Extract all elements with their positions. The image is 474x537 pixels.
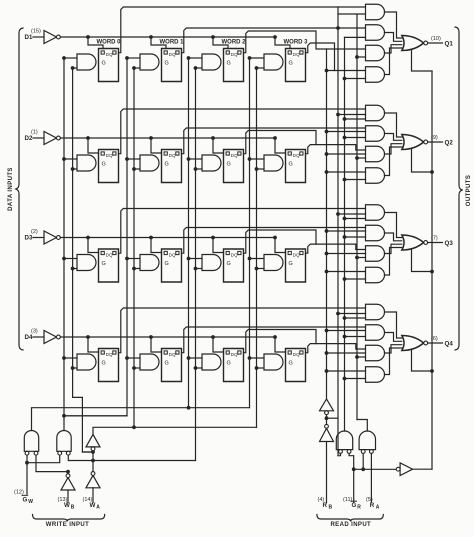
wire read tap row4 gate1 lower [343,316,366,320]
svg-text:G: G [102,61,106,67]
svg-text:D3: D3 [25,235,33,242]
svg-text:(15): (15) [31,29,41,35]
svg-text:D2: D2 [25,135,33,142]
svg-text:G: G [227,361,231,367]
AND gate out row4 g1 [366,304,385,320]
wire Q word2 row1 bus [244,31,366,53]
svg-text:Q: Q [296,52,300,57]
svg-text:Q: Q [234,52,238,57]
wire write tap A row4 word0 [62,356,77,360]
wire D row2 word1 to latch D [151,138,162,153]
wire Q word0 row4 bus [119,308,366,353]
wire D1 input stub [33,36,44,38]
wire write tap B row4 word1 [132,366,140,370]
wire read tap row1 gate2 lower [345,36,366,38]
wire write tap A row2 word0 [62,157,77,161]
pin label (5) [366,497,373,503]
AND gate cell row4 word1 [140,354,159,370]
wire read tap row4 gate2 mid [325,329,366,333]
wire enable stub Q1 [412,50,433,71]
label D2 [25,135,33,142]
wire g4 to NOR row2 [385,147,402,176]
wire Q word2 row4 bus [244,330,317,353]
svg-text:Q: Q [172,252,176,257]
wire write tap A row2 word3 [248,157,264,161]
wire write tap B row1 word1 [132,66,140,70]
wire read tap row3 gate2 mid [325,229,366,233]
pin label (4) [318,497,325,503]
svg-text:Q: Q [172,52,176,57]
wire D row3 word3 to latch D [275,238,286,253]
wire R2 output [357,420,367,432]
svg-text:Q: Q [296,153,300,158]
NOR gate Q4 [402,336,428,351]
wire R2 left input [361,453,365,471]
wire Q3 output [428,242,443,244]
wire write tap B row1 word0 [71,66,77,70]
junction D1 word2 [211,35,215,39]
wire write tap A row3 word0 [62,257,77,261]
inverter buffer D3 [44,231,60,244]
wire D2 input stub [33,137,44,139]
label GW [22,495,33,505]
wire read tap row2 gate1 lower [343,117,366,121]
label WORD 2 [222,40,247,46]
wire WA chain [82,447,95,472]
wire Q word0 row2 bus [119,109,366,154]
wire g3 to NOR row2 [385,144,402,154]
wire D4 data line [60,336,275,338]
svg-text:G: G [165,162,169,168]
wire D row4 word1 to latch D [151,337,162,352]
wire write tap A row4 word3 [248,356,264,360]
junction D3 word3 [273,236,277,240]
svg-text:G: G [165,61,169,67]
wire read tap row2 gate4 upper [325,170,366,174]
junction D2 word0 [86,136,90,140]
svg-text:W: W [64,502,70,509]
label WB [64,502,75,511]
pin label (10) [431,36,441,42]
AND gate out row4 g2 [366,325,385,341]
wire write bus A1 [64,58,127,416]
svg-text:Q: Q [172,153,176,158]
junction D1 word3 [273,35,277,39]
label D4 [25,334,33,341]
wire read tap row1 gate4 upper [325,69,366,73]
wire D1 data line [60,36,275,38]
wire write bus A3 [249,58,251,408]
label WORD 0 [97,40,122,46]
label RA [370,502,380,511]
latch row2 word3 [286,150,306,183]
wire read tap row4 gate3 lower [355,355,365,359]
wire read tap row4 gate3 mid [325,351,366,355]
left brace (data inputs group) [15,28,23,350]
wire Q word1 row1 bus [182,26,366,53]
inverter RB upper [320,399,334,415]
junction D3 word0 [86,236,90,240]
label READ INPUT [330,522,371,528]
svg-text:G: G [23,497,28,504]
junction D3 word1 [149,236,153,240]
label Q1 [445,41,454,48]
wire gate B input B [68,455,195,462]
AND gate cell row1 word3 [264,54,283,70]
svg-text:G: G [102,261,106,267]
svg-text:B: B [329,505,333,511]
wire write bus B0 [73,68,93,452]
wire Q word1 row2 bus [182,128,366,154]
wire read tap row2 gate2 mid [325,130,366,134]
wire write tap B row2 word2 [194,167,202,171]
pin label (7) [431,236,438,242]
wire Q word3 row3 bus [306,244,366,253]
svg-text:Q: Q [109,252,113,257]
inverter buffer D2 [44,132,60,145]
junction D3 word2 [211,236,215,240]
svg-text:DATA INPUTS: DATA INPUTS [8,167,14,211]
wire enable stub Q4 [412,350,434,373]
NOR gate Q2 [402,135,428,150]
svg-text:G: G [227,261,231,267]
svg-text:G: G [289,61,293,67]
svg-text:Q: Q [234,352,238,357]
latch row4 word1 [162,349,182,382]
svg-text:Q: Q [109,153,113,158]
wire WA pin [92,488,94,503]
wire Q1 output [428,42,443,44]
wire D row2 word2 to latch D [213,138,224,153]
AND gate cell row3 word2 [202,255,221,271]
wire Q word3 row1 bus [306,43,335,71]
wire read bus jog row1 [338,7,366,14]
wire WB pin [67,490,69,503]
AND gate cell row1 word1 [140,54,159,70]
wire g3 to NOR row1 [385,45,402,53]
AND gate out row2 g4 [366,168,385,184]
junction D2 word3 [273,136,277,140]
NOR gate Q1 [402,36,428,51]
wire write tap A row3 word1 [125,257,140,261]
wire g4 to NOR row1 [385,48,402,75]
wire D row4 word2 to latch D [213,337,224,352]
wire g1 to NOR row1 [385,12,402,38]
svg-text:G: G [227,162,231,168]
pin label (11) [343,497,353,503]
label RB [323,502,333,511]
AND gate out row4 g3 [366,345,385,361]
wire write bus B2 [195,68,197,461]
AND gate out row3 g4 [366,267,385,283]
wire write tap B row3 word2 [194,267,202,271]
pin label (15) [31,29,41,35]
label WORD 1 [160,40,185,46]
AND gate cell row2 word2 [202,155,221,171]
AND gate cell row3 word3 [264,255,283,271]
wire Q word3 row4 bus [306,344,366,353]
AND gate cell row2 word3 [264,155,283,171]
latch row4 word2 [224,349,244,382]
wire D row1 word3 to latch D [275,37,290,49]
wire enable stub Q3 [412,250,434,274]
AND gate out row3 g1 [366,205,385,221]
wire write tap B row1 word2 [194,66,202,70]
svg-text:R: R [323,502,328,509]
pin label (6) [431,336,438,342]
label WA [90,502,101,511]
pin label (13) [58,497,68,503]
svg-text:G: G [289,261,293,267]
wire write tap B row3 word3 [255,267,264,271]
wire write tap A row4 word2 [187,356,202,360]
svg-text:B: B [71,505,75,511]
wire D row1 word2 to latch D [213,37,228,49]
pin label (1) [31,130,38,136]
svg-text:D1: D1 [25,34,33,41]
wire write tap B row3 word0 [71,267,77,271]
latch row3 word2 [224,249,244,282]
inverter WB [61,474,75,490]
AND gate out row3 g2 [366,225,385,241]
wire enable vertical [431,71,433,469]
svg-text:G: G [165,261,169,267]
svg-text:Q1: Q1 [445,41,454,48]
wire write tap B row3 word1 [132,267,140,271]
junction D4 word2 [211,335,215,339]
wire Q word1 row3 bus [182,228,366,254]
svg-text:G: G [289,162,293,168]
wire read tap row3 gate4 lower [343,277,366,281]
AND gate out row3 g3 [366,246,385,262]
wire D4 input stub [33,336,44,338]
wire RB pin [326,442,328,503]
AND gate cell row1 word2 [202,54,221,70]
AND gate write B [57,431,71,456]
label D1 [25,34,33,41]
wire read tap row3 gate4 upper [325,270,366,274]
wire D row2 word0 to latch D [88,138,99,153]
wire read tap row3 gate3 mid [325,252,366,256]
wire g1 to NOR row3 [385,213,402,238]
AND gate out row2 g1 [366,105,385,121]
AND gate cell row2 word0 [77,155,96,171]
wire read tap row3 gate2 lower [343,235,366,239]
svg-text:Q: Q [234,252,238,257]
wire gate A output [32,406,250,431]
wire write tap A row3 word3 [248,257,264,261]
AND gate out row1 g4 [366,67,385,83]
inverter WA lower [86,472,100,488]
AND gate cell row2 word1 [140,155,159,171]
wire g4 to NOR row4 [385,348,402,375]
pin label (12) [14,490,24,496]
latch row4 word0 [99,349,119,382]
wire write bus A0 (gate B output) [62,58,66,431]
wire g1 to NOR row4 [385,312,402,338]
svg-text:G: G [289,361,293,367]
wire D row4 word0 to latch D [88,337,99,352]
wire g3 to NOR row3 [385,244,402,253]
junction D1 word0 [86,35,90,39]
AND gate out row2 g3 [366,146,385,162]
wire read tap row2 gate3 mid [325,152,366,156]
wire write tap A row4 word1 [125,356,140,360]
svg-text:Q: Q [172,352,176,357]
wire g2 to NOR row2 [385,134,402,141]
svg-text:Q: Q [109,52,113,57]
junction D1 word1 [149,35,153,39]
pin label (14) [83,497,93,503]
junction D4 word3 [273,335,277,339]
latch row3 word3 [286,249,306,282]
pin label (3) [31,329,38,335]
wire write tap A row1 word0 [62,56,77,60]
label OUTPUTS [466,175,472,206]
wire write tap A row2 word1 [125,157,140,161]
wire write bus B3 [256,68,258,427]
wire Q word0 row3 bus [119,209,366,254]
latch row1 word3 [286,49,306,82]
svg-text:Q: Q [296,252,300,257]
label WORD 3 [284,40,309,46]
wire Q word1 row4 bus [182,327,366,353]
wire write tap B row4 word3 [255,366,264,370]
svg-text:Q2: Q2 [445,140,454,147]
label Q3 [445,240,454,247]
svg-text:R: R [370,502,375,509]
inverter buffer D1 [44,31,60,44]
svg-text:READ INPUT: READ INPUT [330,522,371,528]
pin label (9) [431,135,438,141]
right brace (outputs group) [455,27,463,350]
svg-text:G: G [165,361,169,367]
wire R1 left input [338,453,341,455]
label Q4 [445,341,454,348]
wire write tap A row2 word2 [187,157,202,161]
inverter buffer D4 [44,331,60,344]
svg-text:G: G [227,61,231,67]
wire g1 to NOR row2 [385,113,402,137]
wire g2 to NOR row3 [385,233,402,241]
wire WA out [93,425,257,434]
inverter RB lower [320,424,334,441]
AND gate cell row4 word0 [77,354,96,370]
svg-text:W: W [90,502,96,509]
wire read tap row2 gate3 lower [355,156,365,160]
wire read tap row3 gate1 mid [336,212,365,216]
wire g2 to NOR row1 [385,33,402,42]
wire read tap row4 gate4 upper [325,369,366,373]
junction D4 word0 [86,335,90,339]
wire write tap B row4 word2 [194,366,202,370]
wire read tap row2 gate4 lower [343,178,366,182]
latch row1 word2 [224,49,244,82]
buffer read enable [396,463,412,476]
wire g4 to NOR row3 [385,248,402,276]
latch row3 word1 [162,249,182,282]
wire D row3 word0 to latch D [88,238,99,253]
wire GW input [25,455,60,494]
wire read tap row1 gate4 lower [343,77,366,81]
wire Q word3 row2 bus [306,145,366,154]
wire Q4 output [428,342,443,344]
wire write tap A row3 word2 [187,257,202,261]
wire D row1 word0 to latch D [88,37,103,49]
wire D3 data line [60,237,275,239]
AND gate cell row1 word0 [77,54,96,70]
wire read tap row4 gate4 lower [343,377,366,381]
wire read tap row3 gate3 lower [355,256,365,260]
svg-text:(12): (12) [14,490,24,496]
write brace [33,515,105,522]
read brace [317,515,383,522]
AND gate read 2 [359,431,375,453]
svg-text:Q: Q [234,153,238,158]
wire write tap B row2 word3 [255,167,264,171]
AND gate cell row3 word1 [140,255,159,271]
wire D row3 word1 to latch D [151,238,162,253]
wire gate A input B [36,455,70,474]
latch row1 word1 [162,49,182,82]
inverter WA upper [86,434,100,450]
wire write tap B row2 word1 [132,167,140,171]
wire g2 to NOR row4 [385,333,402,342]
wire gate B output link [64,415,127,417]
wire D row4 word3 to latch D [275,337,286,352]
svg-text:OUTPUTS: OUTPUTS [466,175,472,206]
NOR gate Q3 [402,235,428,250]
wire read tap row3 gate1 lower [343,217,366,221]
wire D row1 word1 to latch D [151,37,166,49]
AND gate out row1 g2 [366,25,385,41]
latch row1 word0 [99,49,119,82]
wire D row2 word3 to latch D [275,138,286,153]
wire read tap row1 gate3 lower [355,55,365,59]
wire D3 input stub [33,237,44,239]
AND gate cell row3 word0 [77,255,96,271]
wire D row3 word2 to latch D [213,238,224,253]
wire GR to buffer [354,468,397,470]
latch row2 word1 [162,150,182,183]
wire read tap row4 gate2 lower [343,335,366,339]
svg-text:Q: Q [296,352,300,357]
wire write bus B1 [133,68,135,427]
AND gate out row1 g1 [366,4,385,20]
wire R1 right input [349,453,356,502]
label GR [351,501,361,511]
svg-text:D4: D4 [25,334,33,341]
wire write tap A row1 word1 [125,56,140,60]
latch row3 word0 [99,249,119,282]
svg-text:Q4: Q4 [445,341,454,348]
wire read bus 1 [326,49,328,399]
wire Q word2 row3 bus [244,230,317,253]
wire read bus 2 [337,14,339,456]
wire write bus A2 [188,58,190,408]
wire read bus 4 [356,14,358,420]
junction D2 word1 [149,136,153,140]
wire read tap row2 gate1 mid [336,113,365,117]
AND gate out row2 g2 [366,126,385,142]
junction D4 word1 [149,335,153,339]
wire D2 data line [60,137,275,139]
label WRITE INPUT [46,522,89,528]
wire write tap A row1 word3 [248,56,264,60]
wire buffer output [413,468,432,470]
latch row2 word2 [224,150,244,183]
AND gate write A [24,431,38,456]
